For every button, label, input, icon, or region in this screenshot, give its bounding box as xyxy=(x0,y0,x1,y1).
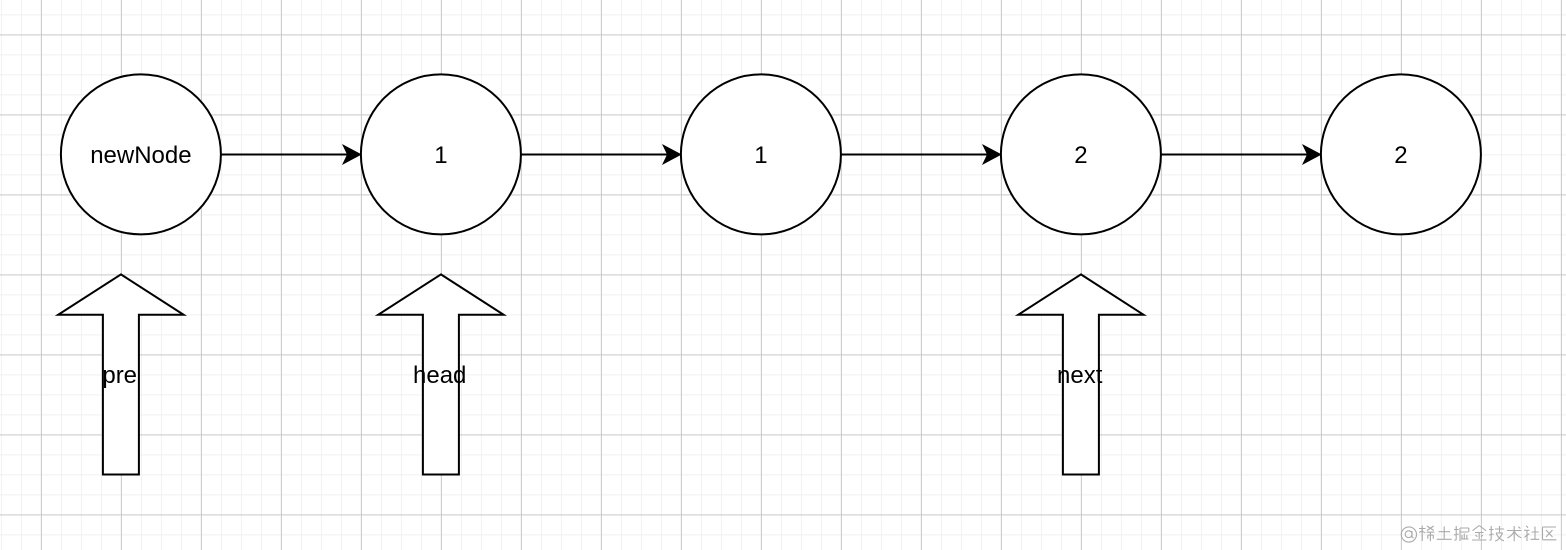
svg-text:1: 1 xyxy=(754,142,767,169)
pointer next (block arrow up) xyxy=(1018,274,1144,474)
node 1 (head) xyxy=(361,74,521,234)
svg-text:next: next xyxy=(1057,362,1103,389)
svg-text:2: 2 xyxy=(1074,142,1087,169)
node newNode xyxy=(61,74,221,234)
svg-text:1: 1 xyxy=(434,142,447,169)
pointer pre (block arrow up) xyxy=(58,274,183,474)
金 xyxy=(1472,526,1487,541)
掘 xyxy=(1454,526,1469,541)
pointer head (block arrow up) xyxy=(378,274,504,474)
wire: arrow 2->2 xyxy=(1161,145,1321,164)
svg-text:newNode: newNode xyxy=(90,142,191,169)
svg-text:pre: pre xyxy=(102,362,137,389)
技 xyxy=(1489,526,1504,541)
node 2 (tail) xyxy=(1321,74,1481,234)
wire: arrow 1->2 xyxy=(841,145,1001,164)
wire: arrow newNode->1 xyxy=(221,145,361,164)
node 1 (second) xyxy=(681,74,841,234)
土 xyxy=(1437,527,1452,540)
区 xyxy=(1543,527,1557,540)
wire: arrow 1->1 xyxy=(521,145,681,164)
社 xyxy=(1524,526,1539,541)
术 xyxy=(1507,526,1522,541)
@ xyxy=(1401,527,1416,542)
稀 xyxy=(1419,526,1434,542)
node 2 (first) xyxy=(1001,74,1161,234)
svg-text:head: head xyxy=(413,362,466,389)
svg-text:2: 2 xyxy=(1394,142,1407,169)
watermark @稀土掘金技术社区 (vector strokes, no CJK font available) xyxy=(1401,526,1556,543)
